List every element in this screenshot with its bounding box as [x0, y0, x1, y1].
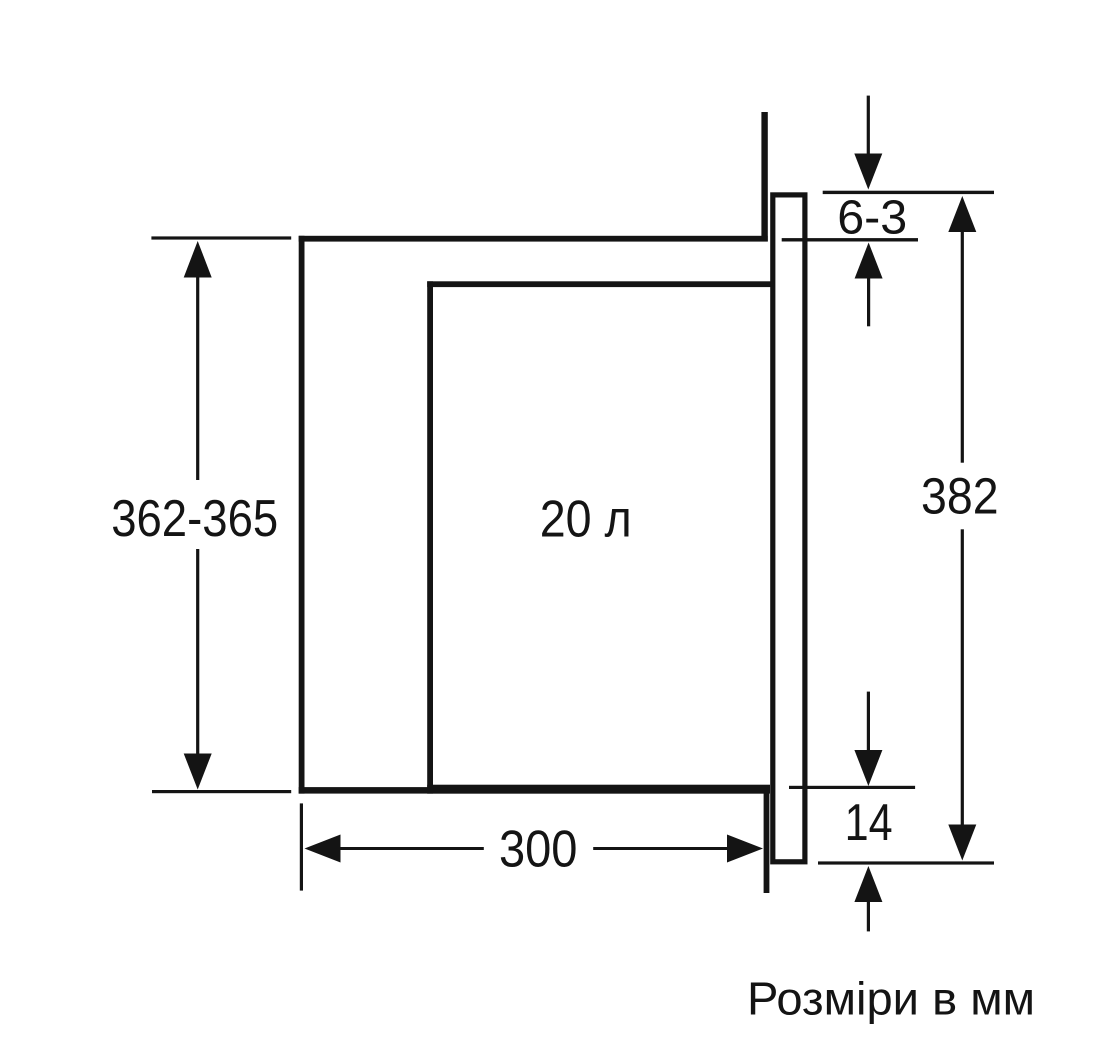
dim 300 right arrow — [727, 835, 763, 863]
svg-text:362-365: 362-365 — [111, 490, 278, 548]
cavity left wall — [427, 281, 433, 793]
front panel — [773, 195, 805, 862]
dim 14 up arrow — [854, 866, 882, 902]
dim 382 line x=962 — [948, 196, 976, 232]
niche top bar — [299, 236, 768, 242]
wall lower segment — [764, 789, 770, 893]
dim 6-3 up shaft — [867, 276, 870, 326]
dim 362-365 down shaft — [196, 549, 199, 755]
dim 382 lower shaft — [961, 529, 964, 826]
dim 362-365 down arrow — [184, 754, 212, 790]
cavity bottom bar — [427, 785, 770, 794]
dim 14 down shaft — [867, 692, 870, 754]
dim 362-365 top tick — [151, 236, 291, 239]
svg-text:14: 14 — [845, 794, 893, 852]
dim 300 left shaft — [338, 847, 484, 850]
niche left wall — [299, 236, 305, 794]
dim 300 left extension line — [300, 803, 303, 890]
dim 14/382 bottom tick — [818, 861, 994, 864]
svg-text:20 л: 20 л — [540, 491, 632, 549]
dim 6-3 bottom tick — [782, 238, 918, 241]
dim 14 top tick — [789, 786, 915, 789]
dim 382 down arrow — [948, 825, 976, 861]
dim 6-3 top tick — [823, 191, 994, 194]
svg-text:Розміри в мм: Розміри в мм — [747, 973, 1035, 1025]
dim 14 down arrow — [854, 750, 882, 786]
dim 362-365 up arrow — [184, 241, 212, 278]
cavity top bar — [427, 281, 771, 287]
niche bottom bar — [299, 787, 770, 794]
dim 300 right shaft — [593, 847, 729, 850]
dim 6-3 down arrow — [854, 154, 882, 190]
wall upper segment — [761, 112, 767, 242]
dim 6-3 up arrow — [855, 243, 883, 279]
dim 362-365 bottom tick — [152, 790, 291, 793]
dim 382 upper shaft — [961, 230, 964, 463]
svg-text:6-3: 6-3 — [837, 191, 907, 245]
dim 300 left arrow — [305, 835, 341, 863]
svg-text:300: 300 — [499, 821, 578, 879]
dim 362-365 up shaft — [196, 275, 199, 480]
dim 14 up shaft — [867, 900, 870, 932]
svg-text:382: 382 — [921, 468, 999, 525]
dim 6-3 down shaft — [867, 96, 870, 158]
